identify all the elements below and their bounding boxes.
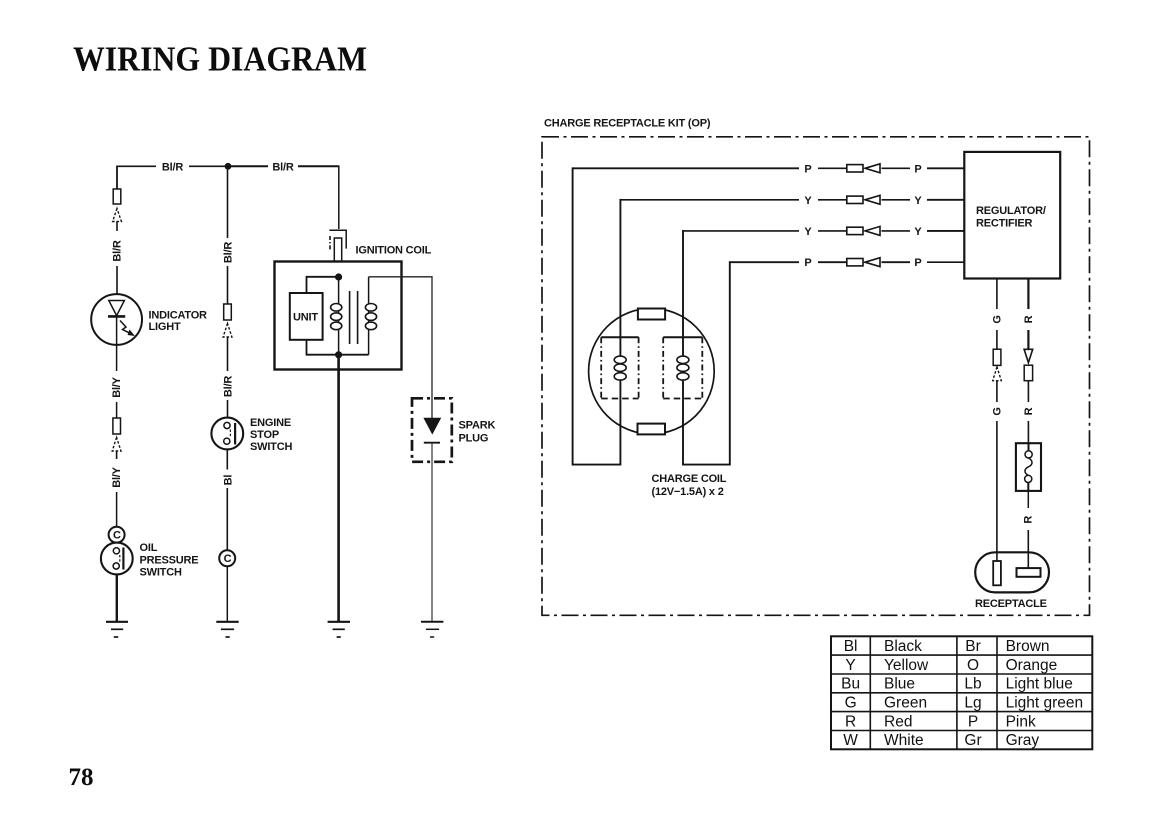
label RECEPTACLE <box>975 598 1047 610</box>
wire bottom join left pair <box>572 464 622 466</box>
ignition coil plug connector <box>329 230 346 261</box>
label Y (wire3 left) <box>804 226 812 238</box>
legend code Lg <box>964 695 981 712</box>
label Bl/R (middle wire lower, rotated) <box>222 376 234 397</box>
svg-text:Bl/R: Bl/R <box>272 161 293 173</box>
fuse box <box>1016 443 1041 491</box>
pole shoe bottom <box>638 424 666 435</box>
svg-text:Lb: Lb <box>964 676 981 693</box>
wire secondary to spark plug <box>369 277 432 419</box>
legend code Br <box>965 638 981 655</box>
ignition coil secondary winding <box>365 277 376 355</box>
svg-text:Bl/R: Bl/R <box>162 161 183 173</box>
connector male bullet (left wire) <box>113 209 122 232</box>
junction node top <box>225 163 232 170</box>
label R (rotated upper) <box>1023 315 1035 323</box>
label P (wire4 right) <box>914 257 921 269</box>
wire ignition primary to ground <box>337 355 340 621</box>
wire Y3 horizontal <box>683 230 964 232</box>
label IGNITION COIL <box>356 244 432 256</box>
label OIL PRESSURE SWITCH <box>140 542 199 579</box>
ground (spark plug) <box>421 622 443 637</box>
kit boundary dashed box <box>542 137 1090 616</box>
label Bl/Y (rotated, lower) <box>111 466 123 487</box>
charge coil flywheel circle <box>589 308 715 434</box>
svg-text:ENGINE: ENGINE <box>250 417 291 429</box>
legend name Brown <box>1006 638 1050 655</box>
receptacle slot <box>993 561 1001 585</box>
wire Bl/R top horizontal segment 1 <box>117 165 156 167</box>
legend code R <box>845 713 856 730</box>
wire G segment 4 <box>996 421 998 562</box>
wire P4 vertical drop <box>729 261 731 464</box>
CDI unit box <box>290 293 323 340</box>
svg-text:White: White <box>884 732 924 749</box>
svg-text:R: R <box>1023 315 1035 323</box>
regulator rectifier box <box>964 152 1060 279</box>
svg-text:Brown: Brown <box>1006 638 1050 655</box>
label Bl/Y (rotated, upper) <box>111 376 123 397</box>
engine stop switch body <box>211 418 243 450</box>
svg-text:P: P <box>914 257 921 269</box>
wire to engine stop switch <box>227 400 229 418</box>
svg-text:WIRING DIAGRAM: WIRING DIAGRAM <box>73 40 367 79</box>
connector female (R wire) <box>1024 365 1032 381</box>
wire G segment 2 <box>996 330 998 349</box>
connector pair (wire1) <box>847 164 880 173</box>
svg-text:O: O <box>967 657 979 674</box>
connector female (middle wire) <box>224 304 232 320</box>
indicator light diode symbol <box>108 301 125 346</box>
svg-text:(12V−1.5A) x 2: (12V−1.5A) x 2 <box>652 486 724 498</box>
wire below engine stop switch <box>226 449 228 469</box>
wire R segment 5 <box>1027 491 1029 508</box>
wire below indicator light <box>116 345 118 371</box>
svg-text:Y: Y <box>914 226 922 238</box>
svg-text:Y: Y <box>804 226 812 238</box>
label G (rotated upper) <box>991 315 1003 323</box>
svg-text:P: P <box>804 257 811 269</box>
wire spark plug to ground <box>431 444 433 621</box>
wire to indicator light <box>116 266 118 295</box>
svg-text:Pink: Pink <box>1006 713 1036 730</box>
wire middle vertical segment 2 <box>227 266 229 304</box>
svg-text:Bl: Bl <box>844 638 858 655</box>
legend name Yellow <box>884 657 929 674</box>
wire secondary bottom joining <box>339 354 369 356</box>
spark plug box <box>412 398 452 462</box>
pole shoe top <box>638 309 665 320</box>
label P (wire1 right) <box>914 163 921 175</box>
label SPARK PLUG <box>459 419 496 444</box>
svg-text:R: R <box>1023 407 1035 415</box>
svg-text:Orange: Orange <box>1006 657 1058 674</box>
label Bl/R (left wire, rotated) <box>112 240 124 261</box>
svg-text:STOP: STOP <box>250 429 279 441</box>
label CHARGE RECEPTACLE KIT (OP) <box>544 117 711 129</box>
svg-text:P: P <box>968 713 978 730</box>
svg-text:G: G <box>845 695 857 712</box>
ground (middle) <box>216 622 238 637</box>
wire R segment 2 <box>1027 330 1029 350</box>
svg-text:C: C <box>113 530 121 542</box>
legend name Light blue <box>1006 676 1073 693</box>
label P (wire1 left) <box>804 163 811 175</box>
indicator light arrow <box>120 321 135 337</box>
svg-text:Bl/R: Bl/R <box>112 240 124 261</box>
legend code Bl <box>844 638 858 655</box>
coil housing right <box>663 337 702 398</box>
fuse element <box>1025 443 1033 491</box>
legend code Gr <box>964 732 981 749</box>
indicator light lamp circle <box>91 294 142 345</box>
legend table grid <box>831 636 1092 749</box>
coil housing left <box>601 337 638 398</box>
svg-text:SPARK: SPARK <box>459 419 496 431</box>
connector pair (wire3) <box>847 226 880 235</box>
legend name Green <box>884 695 927 712</box>
legend name Orange <box>1006 657 1058 674</box>
svg-text:Light green: Light green <box>1006 695 1084 712</box>
svg-text:78: 78 <box>69 764 94 791</box>
svg-text:INDICATOR: INDICATOR <box>149 309 208 321</box>
connector ring C (middle) <box>219 550 235 566</box>
spark plug electrode <box>424 418 441 442</box>
wire R segment 3 <box>1027 381 1029 402</box>
legend name Pink <box>1006 713 1036 730</box>
receptacle pad <box>1017 568 1041 577</box>
ground (left) <box>106 622 128 637</box>
legend name Black <box>884 638 922 655</box>
connector male bullet (R wire) <box>1024 349 1033 362</box>
wire Bl/R top horizontal segment 4 <box>298 165 339 167</box>
label R (rotated above receptacle) <box>1023 516 1035 524</box>
svg-text:CHARGE COIL: CHARGE COIL <box>652 473 727 485</box>
wire Y2 vertical drop <box>619 199 621 465</box>
svg-text:Black: Black <box>884 638 922 655</box>
label Bl (rotated) <box>222 475 234 486</box>
wire Y3 vertical drop <box>682 230 684 465</box>
legend name Light green <box>1006 695 1084 712</box>
svg-text:UNIT: UNIT <box>293 312 318 324</box>
svg-text:C: C <box>224 553 232 565</box>
wire to connector C (middle) <box>226 488 228 551</box>
svg-text:Gray: Gray <box>1006 732 1040 749</box>
label INDICATOR LIGHT <box>149 309 208 333</box>
ignition coil primary winding <box>331 277 342 355</box>
label Bl/R (middle wire, rotated) <box>222 242 234 263</box>
label Y (wire2 right) <box>914 195 922 207</box>
svg-text:OIL: OIL <box>140 542 158 554</box>
svg-text:Y: Y <box>914 195 922 207</box>
svg-text:IGNITION COIL: IGNITION COIL <box>356 244 432 256</box>
wire unit bottom <box>307 340 339 355</box>
wire G segment 3 <box>996 381 998 402</box>
connector female (G wire) <box>993 349 1001 365</box>
svg-text:Y: Y <box>845 657 855 674</box>
svg-text:RECTIFIER: RECTIFIER <box>976 218 1033 230</box>
svg-text:LIGHT: LIGHT <box>149 321 181 333</box>
svg-text:Bl: Bl <box>222 475 234 486</box>
connector pair (wire4) <box>847 258 880 267</box>
svg-text:Bl/R: Bl/R <box>222 242 234 263</box>
svg-text:R: R <box>845 713 856 730</box>
wire P1 vertical drop <box>572 167 574 464</box>
connector female (left wire) <box>113 189 121 204</box>
svg-text:Bu: Bu <box>841 676 860 693</box>
legend code G <box>845 695 857 712</box>
receptacle body <box>975 552 1049 592</box>
label REGULATOR RECTIFIER <box>976 205 1046 230</box>
junction node (coil top) <box>335 273 342 280</box>
wire R segment 6 <box>1027 530 1029 568</box>
ignition coil box <box>275 262 402 370</box>
legend code O <box>967 657 979 674</box>
wire oil pressure switch to ground <box>116 574 118 621</box>
legend name Red <box>884 713 912 730</box>
ignition coil core <box>350 291 358 344</box>
legend code Bu <box>841 676 860 693</box>
label Y (wire2 left) <box>804 195 812 207</box>
label ENGINE STOP SWITCH <box>250 417 292 453</box>
svg-text:PRESSURE: PRESSURE <box>140 555 199 567</box>
wire left vertical upper <box>116 166 118 190</box>
svg-text:R: R <box>1023 516 1035 524</box>
title WIRING DIAGRAM <box>73 40 367 79</box>
svg-text:Gr: Gr <box>964 732 981 749</box>
wire left vertical middle <box>116 402 118 418</box>
wire P1 horizontal <box>573 167 965 169</box>
svg-text:Green: Green <box>884 695 927 712</box>
legend code Lb <box>964 676 981 693</box>
svg-text:W: W <box>843 732 858 749</box>
wire Bl/R top horizontal segment 2 <box>189 165 225 167</box>
legend name Blue <box>884 676 915 693</box>
legend code W <box>843 732 858 749</box>
charge coil winding right <box>677 356 689 380</box>
svg-text:Bl/Y: Bl/Y <box>111 466 123 487</box>
wire bottom join right pair <box>682 464 731 466</box>
label CHARGE COIL value <box>652 473 727 498</box>
svg-text:G: G <box>991 407 1003 415</box>
svg-text:Red: Red <box>884 713 912 730</box>
engine stop switch contacts <box>224 422 235 444</box>
legend name Gray <box>1006 732 1040 749</box>
connector ring C (oil pressure) <box>109 527 125 543</box>
svg-text:CHARGE RECEPTACLE KIT (OP): CHARGE RECEPTACLE KIT (OP) <box>544 117 711 129</box>
wire P4 horizontal <box>730 261 965 263</box>
page number 78 <box>69 764 94 791</box>
oil pressure switch body <box>101 543 133 575</box>
legend name White <box>884 732 924 749</box>
wire R vertical segment 1 <box>1027 279 1029 310</box>
wire R segment 4 <box>1027 421 1029 443</box>
label R (rotated lower) <box>1023 407 1035 415</box>
svg-text:Yellow: Yellow <box>884 657 929 674</box>
svg-text:RECEPTACLE: RECEPTACLE <box>975 598 1047 610</box>
svg-text:Lg: Lg <box>964 695 981 712</box>
svg-text:SWITCH: SWITCH <box>250 441 292 453</box>
svg-text:SWITCH: SWITCH <box>140 567 182 579</box>
label Y (wire3 right) <box>914 226 922 238</box>
wire Bl/R top horizontal segment 3 <box>231 165 268 167</box>
ground (ignition) <box>328 622 350 637</box>
wire Y2 horizontal <box>620 199 964 201</box>
svg-text:Light blue: Light blue <box>1006 676 1073 693</box>
connector pair (wire2) <box>847 195 880 204</box>
junction node (coil bottom) <box>335 351 342 358</box>
svg-text:Bl/Y: Bl/Y <box>111 376 123 397</box>
label G (rotated lower) <box>991 407 1003 415</box>
wire to oil pressure switch <box>116 492 118 527</box>
legend code Y <box>845 657 855 674</box>
svg-text:Blue: Blue <box>884 676 915 693</box>
svg-text:G: G <box>991 315 1003 323</box>
charge coil winding left <box>614 356 626 380</box>
svg-text:PLUG: PLUG <box>459 432 489 444</box>
svg-text:Bl/R: Bl/R <box>222 376 234 397</box>
wire middle vertical upper <box>227 166 229 238</box>
svg-text:Y: Y <box>804 195 812 207</box>
wire ignition drop vertical <box>338 166 340 230</box>
svg-text:Br: Br <box>965 638 981 655</box>
label P (wire4 left) <box>804 257 811 269</box>
label Bl/R (top right) <box>272 161 293 173</box>
connector male bullet (middle wire) <box>223 324 232 338</box>
oil pressure switch contacts <box>113 548 123 570</box>
label Bl/R (top left) <box>162 161 183 173</box>
wire G vertical segment 1 <box>996 279 998 310</box>
wire unit top <box>307 277 339 293</box>
wire middle to ground <box>226 566 228 621</box>
svg-text:P: P <box>914 163 921 175</box>
connector male bullet (G wire) <box>993 367 1002 381</box>
wire middle vertical segment 3 <box>227 337 229 371</box>
svg-text:REGULATOR/: REGULATOR/ <box>976 205 1046 217</box>
connector male bullet (left wire lower) <box>112 438 121 460</box>
legend code P <box>968 713 978 730</box>
svg-text:P: P <box>804 163 811 175</box>
connector female (left wire lower) <box>113 418 121 434</box>
